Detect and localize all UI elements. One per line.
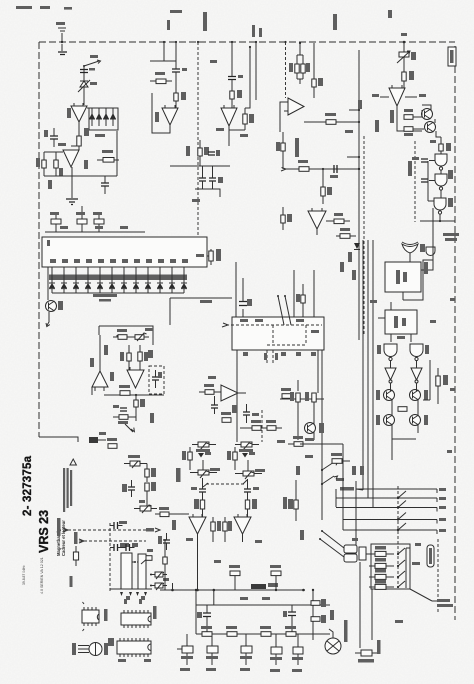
- resistor R83: [245, 499, 257, 517]
- resistor R95: [311, 615, 326, 623]
- dashed vertical x415: [414, 141, 416, 222]
- ic DIP16: [117, 638, 151, 657]
- resistor R93: [285, 626, 296, 636]
- svg-text:Cadreur et lecteur: Cadreur et lecteur: [61, 520, 66, 556]
- capacitor C42: [158, 533, 170, 550]
- wire U14 link: [92, 335, 129, 395]
- resistor R75: [113, 411, 136, 424]
- nand gate G3: [434, 190, 446, 214]
- label +12V left: [372, 94, 389, 97]
- wire feedback loop U2: [44, 146, 79, 176]
- resistor R22: [312, 43, 323, 98]
- stub from border 2: [175, 41, 177, 66]
- wire to fuse label: [410, 589, 437, 601]
- model VRS 23: [37, 510, 51, 553]
- resistor R105: [145, 482, 156, 497]
- capacitor C51: [110, 543, 129, 551]
- resistor R73: [119, 385, 130, 395]
- capacitor C2: [44, 128, 58, 147]
- resistor R25: [298, 160, 309, 171]
- op-amp U15: [127, 367, 144, 388]
- capacitor C34: [113, 405, 127, 411]
- capacitor C31: [211, 396, 218, 414]
- connector socket: [359, 547, 366, 560]
- trimmer P4: [235, 442, 259, 452]
- label TONKOPF rotated: [176, 468, 181, 482]
- resistor R90: [201, 626, 212, 636]
- doc number 2-327375a: [22, 455, 34, 516]
- resistor R84 input: [155, 507, 189, 517]
- diode D511: [181, 267, 187, 293]
- frame left border: [38, 42, 40, 437]
- resistor R42 below box: [280, 388, 324, 399]
- xor gate G10: [402, 242, 425, 253]
- resistor R24: [304, 113, 359, 124]
- fuse F1: [355, 650, 380, 663]
- label SETZ.LSAM rotated: [377, 640, 381, 654]
- transistor Q10: [376, 383, 395, 401]
- resistor R4: [97, 150, 119, 162]
- arrow out Q3: [46, 312, 50, 327]
- frame left step: [39, 437, 78, 442]
- transistor Q12: [376, 400, 395, 426]
- dashed left rail: [109, 523, 111, 592]
- diode D502: [73, 267, 79, 293]
- vertical bundle line 1: [362, 240, 364, 490]
- resistor R50: [340, 228, 356, 238]
- serial line small: [40, 557, 44, 594]
- lone resistor R100: [73, 546, 78, 566]
- wire stage outputs: [392, 360, 430, 460]
- wire pair into matrix area: [300, 438, 343, 520]
- resistor R30: [402, 71, 414, 88]
- switch box bottom tick labels: [243, 352, 316, 356]
- transistor Q11: [410, 383, 429, 401]
- main bus y590: [160, 589, 305, 592]
- mode slide switch: [427, 545, 434, 567]
- resistor R66: [266, 420, 276, 430]
- resistor R40 right of U10: [207, 249, 221, 265]
- op-amp U16: [189, 514, 206, 534]
- vertical bundle line 3: [372, 240, 374, 507]
- diode D4: [103, 108, 109, 126]
- wire U5 in left: [280, 102, 284, 169]
- capacitor C32: [243, 404, 250, 423]
- frame right border: [454, 46, 456, 620]
- switch arrow S3: [125, 424, 134, 432]
- resistor R41: [296, 284, 305, 317]
- switch S1: [83, 60, 101, 67]
- dashed box caps: [149, 366, 164, 394]
- arrow tick 3: [136, 592, 139, 596]
- resistor R28: [281, 207, 292, 230]
- resistor R86: [223, 517, 232, 542]
- wire gates feed: [428, 161, 435, 202]
- wire top pair: [297, 42, 303, 84]
- transistor T4: [270, 634, 282, 665]
- transistor T3: [240, 634, 252, 665]
- diode D506: [121, 267, 127, 293]
- top loop wire: [99, 326, 153, 345]
- resistor R21: [301, 55, 310, 79]
- capacitor C33: [152, 370, 162, 388]
- resistor R101: [146, 549, 153, 560]
- long dashed vertical bus x198: [197, 41, 199, 236]
- op-amp U13: [221, 385, 246, 401]
- op-amp U17: [234, 514, 251, 534]
- diode D504: [97, 267, 103, 293]
- resistor R27: [326, 213, 350, 224]
- dashed wire -5V VID: [79, 539, 146, 543]
- transistor TO92: [72, 643, 108, 656]
- diode D503: [85, 267, 91, 293]
- DIP8 label rotated: [104, 609, 108, 621]
- vertical bundle line 2: [367, 240, 369, 498]
- wire bottom header: [45, 231, 145, 233]
- label BC238 rotated: [390, 110, 394, 123]
- connector plug box 2: [344, 554, 357, 562]
- contact rail dashed: [397, 486, 399, 584]
- op-amp U1: [71, 103, 87, 122]
- resistor R6 bottom row: [76, 206, 87, 232]
- dashed drop x262: [261, 410, 263, 442]
- capacitor C1: [80, 68, 95, 73]
- transistor Q14: [305, 402, 325, 440]
- corner wire y298: [170, 298, 232, 325]
- label row small right: [352, 466, 364, 475]
- dashed rail 2 inside: [267, 344, 306, 346]
- wire U2 output down: [71, 176, 73, 198]
- riser x372 down: [371, 589, 373, 640]
- switch lever 1: [277, 295, 284, 325]
- resistor R91: [226, 626, 237, 636]
- contact 3: [397, 513, 406, 521]
- capacitor C15: [330, 165, 338, 178]
- wire R13 top: [229, 46, 251, 130]
- resistor R2: [36, 152, 46, 176]
- inverter G14: [385, 361, 396, 383]
- capacitor C30: [239, 278, 252, 317]
- warning triangle: [70, 459, 76, 465]
- wire transistor links: [413, 110, 441, 137]
- wire left IC down: [47, 267, 49, 300]
- toggle lever 1: [321, 462, 338, 471]
- resistor R81: [227, 447, 237, 470]
- vertical wire mid: [72, 131, 117, 176]
- label 4.5% rotated: [70, 576, 73, 587]
- transistor T5: [292, 634, 303, 665]
- trimmer P5: [190, 460, 220, 478]
- resistor R11: [174, 77, 186, 108]
- label -12V right: [405, 94, 426, 97]
- nand gate G12: [377, 344, 397, 361]
- node feed: [401, 33, 407, 43]
- wire row y189: [195, 189, 220, 197]
- switch box interior labels: [240, 319, 319, 333]
- resistor R51: [398, 407, 407, 412]
- matrix line K2: [336, 497, 446, 502]
- resistor R7 bottom row: [93, 212, 104, 232]
- trimmer P3: [192, 442, 216, 452]
- resistor R14: [198, 140, 209, 166]
- resistor R94: [311, 599, 326, 607]
- label D500-D510: [93, 294, 117, 302]
- matrix line K4: [343, 518, 446, 524]
- ground 2: [66, 199, 78, 205]
- date small: [22, 565, 26, 585]
- warning text lines rotated: [63, 468, 72, 512]
- bottom rail y589: [110, 588, 152, 590]
- arrow tick 1: [120, 592, 123, 596]
- main vertical x359: [358, 50, 360, 340]
- wire U4 net down: [228, 130, 230, 146]
- vertical x256 feed: [252, 25, 262, 100]
- matrix line K3: [336, 506, 446, 512]
- stub from border 1: [163, 41, 165, 61]
- DIP16 labels: [108, 638, 151, 662]
- top entry elbow: [356, 489, 373, 508]
- resistor R12: [230, 80, 242, 108]
- subtitle small block: [56, 520, 66, 556]
- ic DIP14: [121, 610, 151, 628]
- dashed wire LAUTSPRECHER: [63, 528, 148, 532]
- wire opamp to diode box: [87, 107, 89, 109]
- terminal J1: [56, 22, 66, 42]
- page speck top-left: [16, 6, 72, 10]
- diode D60: [198, 452, 211, 458]
- wire below box a: [236, 350, 238, 442]
- wire U3 out: [152, 93, 170, 133]
- wire U11 out: [403, 208, 433, 300]
- trimmer P13: [134, 497, 157, 513]
- resistor R63: [199, 384, 221, 394]
- resistor R61: [305, 392, 316, 402]
- wire switch chain: [83, 66, 85, 105]
- page speck top-mid: [170, 10, 392, 18]
- lead-in diagonal 2: [319, 538, 344, 557]
- op-amp U14: [92, 366, 108, 391]
- dashed riser 2: [305, 325, 307, 345]
- resistor R82: [194, 499, 205, 517]
- riser x360 down: [359, 562, 361, 648]
- wire x294 down: [293, 270, 295, 317]
- bus y169: [286, 168, 360, 170]
- nand gate G1: [435, 154, 447, 170]
- right border ticks: [447, 298, 455, 453]
- capacitor C40: [191, 478, 206, 500]
- label MONITOR rotated: [295, 138, 299, 157]
- label NORMAL: [336, 478, 354, 491]
- wire x236 down: [235, 262, 237, 317]
- op-amp U7: [389, 85, 405, 106]
- program contacts: [397, 548, 405, 588]
- capacitor C11: [228, 75, 243, 80]
- resistor R112: [369, 569, 394, 579]
- stub left of bus: [163, 578, 173, 590]
- bus y605: [196, 604, 330, 606]
- toggle lever 2: [321, 476, 338, 485]
- program box outline: [371, 544, 410, 589]
- wire +12 feed: [336, 235, 340, 237]
- svg-text:39.8.87 04Hr.: 39.8.87 04Hr.: [22, 565, 26, 585]
- diode D510: [169, 267, 175, 293]
- resistor R20: [289, 55, 299, 79]
- diode D61: [242, 452, 255, 458]
- resistor R87: [288, 480, 298, 521]
- capacitor C43 el: [197, 605, 211, 635]
- label DIAGN ONLY: [443, 233, 459, 241]
- dashed feed x285: [284, 41, 286, 98]
- stub x232: [231, 41, 233, 76]
- labels bottom-middle: [172, 520, 304, 672]
- wire U12 pins: [378, 302, 411, 342]
- resistor R110: [366, 546, 394, 556]
- transistor Q2: [425, 122, 436, 133]
- op-amp U2: [63, 150, 79, 167]
- arrow tick 4: [144, 592, 147, 596]
- speaker box LS1: [121, 553, 132, 589]
- IC U10 pin labels interior: [50, 259, 188, 263]
- wire row y166: [170, 165, 230, 167]
- wire G3 out: [420, 214, 455, 222]
- ic DIP8: [82, 602, 99, 631]
- wire stub y157: [347, 156, 360, 158]
- op-amp U4: [221, 105, 237, 126]
- dashed riser 1: [272, 325, 274, 345]
- wire riser x215: [213, 590, 215, 605]
- resistor R88 above bus: [229, 565, 240, 590]
- label LAUTSPRECHER rotated: [57, 518, 61, 536]
- diode D5: [110, 108, 116, 126]
- diode D507: [133, 267, 139, 293]
- resistor R103: [107, 438, 117, 448]
- arrow into bus: [281, 168, 286, 172]
- IC U10 delay line box: [42, 237, 207, 267]
- resistor R65: [251, 420, 261, 430]
- motor M1: [325, 629, 341, 654]
- diode D2: [89, 108, 95, 126]
- wire outputs down: [196, 534, 242, 591]
- labels center low: [208, 376, 313, 475]
- transistor Q1: [422, 105, 433, 120]
- program right rail: [406, 548, 420, 588]
- diode D505: [109, 267, 115, 293]
- resistor R60: [290, 380, 300, 440]
- capacitor C12: [208, 150, 220, 156]
- svg-text:VRS 23: VRS 23: [37, 510, 51, 553]
- link dashes between boxes: [132, 561, 138, 563]
- node at border: [61, 41, 63, 43]
- DIP14 label rotated: [126, 596, 157, 619]
- diode bus: [52, 292, 184, 294]
- dashed rail x438: [437, 539, 439, 612]
- resistor R102: [163, 539, 167, 590]
- transistor Q3: [46, 301, 64, 312]
- dashed drop pair: [264, 350, 278, 365]
- label START MOT rotated: [344, 620, 348, 642]
- resistor R1: [77, 122, 89, 150]
- resistor R64: [221, 412, 231, 422]
- diode D3: [96, 108, 102, 126]
- ground: [58, 52, 67, 55]
- wire x323 down: [322, 168, 324, 204]
- wire input left: [150, 60, 176, 62]
- wire below box b: [317, 350, 319, 393]
- nand gate G2: [435, 170, 447, 190]
- capacitor C21: [408, 161, 428, 182]
- right riser x313: [312, 589, 314, 640]
- label 3B1: [348, 252, 352, 262]
- wire riser x196: [195, 590, 197, 634]
- diode array box: [89, 108, 118, 130]
- label +12V rotated: [167, 20, 170, 30]
- wire levers rail: [321, 470, 323, 520]
- diode D500: [49, 267, 55, 293]
- contact 2: [397, 501, 406, 509]
- wire terminal to ground: [61, 44, 63, 51]
- diode row labels: [49, 275, 187, 281]
- op-amp U6: [308, 208, 326, 235]
- resistor R33: [439, 137, 451, 154]
- resistor R13: [243, 108, 254, 130]
- trimmer P10: [150, 572, 167, 579]
- diode D508: [145, 267, 151, 293]
- trimmer P12: [124, 455, 147, 468]
- svg-text:4.0 SERIEN VA 12 021: 4.0 SERIEN VA 12 021: [40, 557, 44, 594]
- wire x314 down: [313, 270, 315, 317]
- label -5 VID arrow: [146, 528, 160, 532]
- resistor R52: [436, 368, 448, 404]
- capacitor C53: [122, 480, 135, 497]
- labels top-left: [48, 55, 105, 189]
- junction dots bus y590 extras: [195, 589, 277, 591]
- svg-text:2- 327375a: 2- 327375a: [22, 455, 34, 516]
- capacitor C52: [122, 543, 138, 551]
- IC U12: [385, 310, 417, 334]
- labels top-middle: [155, 60, 248, 202]
- resistor R74: [134, 395, 145, 411]
- switch arrow over LS2: [141, 557, 150, 564]
- capacitor C41: [244, 479, 259, 500]
- resistor R92: [260, 626, 271, 636]
- dash-dot rail inside: [222, 323, 322, 327]
- label block top x334: [333, 14, 337, 30]
- wire y428 row: [240, 427, 282, 429]
- matrix left risers: [336, 481, 356, 561]
- trimmer P11: [150, 583, 167, 590]
- coil Dr1: [89, 432, 106, 443]
- wire bus y395: [104, 394, 164, 396]
- label 110Hz rotated: [150, 413, 154, 423]
- wire U7 out: [397, 106, 422, 131]
- resistor R85: [211, 517, 221, 542]
- resistor R10: [150, 72, 172, 84]
- capacitor C3: [101, 176, 109, 194]
- op-amp U3: [162, 105, 178, 125]
- trimmer P1: [397, 50, 416, 72]
- wire stub y110: [349, 109, 360, 111]
- transistor T2: [206, 634, 218, 665]
- component above bus right: [270, 565, 281, 590]
- vertical pair x318/x322: [321, 350, 323, 520]
- dashed link between trimmers: [203, 480, 247, 487]
- test point box TP right border: [448, 47, 456, 66]
- label C10 400mA: [437, 599, 453, 607]
- resistor R70: [113, 329, 135, 339]
- resistor R111: [369, 558, 394, 568]
- IC U11: [385, 262, 421, 292]
- resistor R80: [182, 447, 192, 470]
